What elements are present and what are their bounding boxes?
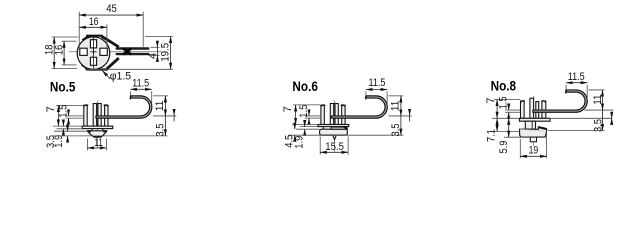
- post 2: [530, 98, 534, 118]
- dim 18 left: [52, 36, 79, 38]
- nub: [530, 137, 536, 142]
- svg-text:11: 11: [592, 94, 604, 104]
- dim 11.5: [565, 85, 567, 90]
- round body: [77, 37, 110, 70]
- slot left: [80, 48, 87, 55]
- dim 7 left: [293, 104, 321, 106]
- anchor bulge: [88, 131, 107, 137]
- svg-text:1.9: 1.9: [294, 136, 306, 149]
- post 4: [342, 105, 345, 124]
- dim 3.5 left: [67, 126, 69, 132]
- svg-text:16: 16: [89, 16, 99, 28]
- dim 3.5 right: [52, 135, 168, 137]
- svg-text:7: 7: [45, 106, 57, 112]
- svg-text:7: 7: [282, 106, 294, 112]
- dim 7 left: [56, 104, 84, 106]
- svg-text:4.5: 4.5: [283, 135, 295, 148]
- svg-text:1.5: 1.5: [57, 105, 69, 118]
- leader dia 1.5: [102, 71, 110, 79]
- post 2: [93, 104, 96, 127]
- post 3: [98, 104, 101, 127]
- hex body bottom edge: [87, 68, 107, 70]
- post 2: [330, 104, 333, 125]
- svg-text:No.5: No.5: [50, 79, 76, 94]
- dim 11 right: [388, 95, 403, 97]
- dim 11 bottom: [87, 139, 89, 151]
- post 4: [542, 101, 546, 118]
- dim 1.5 left: [66, 115, 84, 117]
- dim 3.5 right: [551, 117, 612, 119]
- post 1: [84, 105, 87, 126]
- neck: [322, 127, 324, 130]
- svg-text:3.5: 3.5: [155, 124, 167, 137]
- svg-text:5.9: 5.9: [498, 141, 510, 154]
- dim 5.9 left: [504, 136, 530, 138]
- centerline horizontal: [69, 51, 162, 53]
- svg-text:1.5: 1.5: [298, 105, 310, 118]
- part centerline: [334, 100, 336, 152]
- svg-text:7.1: 7.1: [485, 129, 497, 142]
- wire top: [116, 47, 150, 49]
- v-notch: [333, 135, 337, 140]
- svg-text:4: 4: [147, 53, 159, 59]
- center cross: [90, 51, 96, 53]
- svg-text:7: 7: [485, 98, 497, 104]
- part centerline: [96, 100, 98, 147]
- base plate: [318, 125, 349, 127]
- slot top: [90, 40, 96, 48]
- dim 45: [78, 12, 80, 49]
- svg-text:11.5: 11.5: [568, 71, 585, 83]
- dim 4.5 left: [294, 124, 296, 130]
- svg-text:φ1.5: φ1.5: [110, 70, 131, 82]
- part centerline: [533, 96, 535, 146]
- dim 1.5 left: [305, 115, 320, 117]
- post 1: [521, 101, 525, 118]
- svg-text:No.8: No.8: [491, 78, 517, 93]
- post 1: [321, 105, 324, 124]
- ratchet pillow: [320, 129, 348, 135]
- svg-text:19: 19: [529, 145, 539, 157]
- svg-text:3.5: 3.5: [45, 135, 57, 148]
- wire bottom: [116, 53, 150, 55]
- dim 16 left: [62, 40, 77, 42]
- dim 7 left: [494, 98, 520, 100]
- dim 11.5: [130, 91, 132, 95]
- centerline vertical: [93, 36, 95, 71]
- svg-text:11.5: 11.5: [132, 77, 149, 89]
- dim 11 right: [588, 89, 604, 91]
- dim 4 right: [151, 46, 160, 48]
- hook wire: [533, 90, 587, 112]
- T-foot tray: [520, 127, 547, 137]
- post 3: [536, 102, 539, 119]
- svg-text:3.5: 3.5: [592, 119, 604, 132]
- base plate: [520, 118, 551, 121]
- neck: [91, 129, 93, 131]
- svg-text:11: 11: [389, 101, 401, 111]
- dim 16 top: [106, 24, 108, 47]
- upper deck step: [331, 127, 347, 129]
- dim 1.5 left: [505, 109, 520, 111]
- svg-text:16: 16: [54, 45, 66, 55]
- slot bottom: [90, 57, 96, 65]
- svg-text:No.6: No.6: [292, 79, 318, 94]
- post 3: [335, 104, 338, 125]
- post 4: [105, 105, 108, 126]
- dim 19 bottom: [519, 139, 521, 158]
- dim 3.5 right: [288, 134, 403, 136]
- svg-text:19.5: 19.5: [159, 43, 171, 62]
- svg-text:11.5: 11.5: [369, 77, 386, 89]
- dim 11.5: [365, 91, 367, 95]
- dim 7.1 left: [492, 117, 519, 119]
- svg-text:1.5: 1.5: [498, 96, 510, 109]
- dim 1.9 left: [292, 124, 318, 126]
- dim 11 right: [153, 95, 168, 97]
- slot centerlines re-draw: [93, 37, 95, 51]
- svg-text:15.5: 15.5: [325, 141, 344, 153]
- hook wire: [96, 96, 152, 118]
- body block: [525, 121, 535, 129]
- wire twist: [123, 48, 131, 54]
- svg-text:45: 45: [106, 3, 117, 15]
- dim 15.5 bottom: [319, 136, 321, 154]
- hex body top edge: [87, 35, 102, 37]
- svg-text:3.5: 3.5: [390, 124, 402, 137]
- dim 19.5 right: [145, 35, 173, 37]
- slot right: [100, 48, 107, 55]
- svg-text:11: 11: [154, 101, 166, 111]
- hook wire: [331, 96, 387, 118]
- svg-text:11: 11: [94, 137, 103, 149]
- base plate: [82, 126, 113, 129]
- dim 1.9 left: [53, 125, 82, 127]
